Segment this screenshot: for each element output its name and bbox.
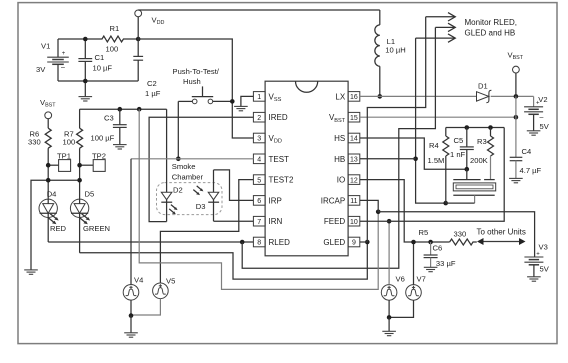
pin 8 RLED [253,237,290,247]
junction C5 top [465,125,470,130]
junction RLED branch [240,240,245,245]
svg-text:GLED and HB: GLED and HB [465,29,516,38]
wire divider top rail [446,127,504,129]
D3 incident light arrows [193,186,203,195]
junction GLED riser on pin 9 wire [365,240,370,245]
pin 9 GLED [323,237,359,247]
wire pushbutton left to TEST net [177,101,179,158]
svg-text:1.5M: 1.5M [428,156,445,165]
monitor arrow HB [416,34,456,42]
ground V4/V5 [124,333,138,337]
wire V1 negative lead [57,64,59,81]
wire GLED net D5 to riser [80,242,368,279]
junction L1 on LX wire [378,94,383,99]
capacitor C3 100uF [113,109,127,144]
junction resonator bottom node [443,201,448,206]
svg-text:33 µF: 33 µF [436,259,456,268]
svg-text:D3: D3 [196,202,206,211]
wire R6 bottom to D4 [47,148,49,199]
svg-text:12: 12 [350,177,358,184]
pin 6 IRP [253,196,281,206]
svg-text:LX: LX [335,92,345,101]
svg-text:V6: V6 [396,275,405,284]
junction gray riser top [137,107,142,112]
monitor arrow GLED [426,13,456,21]
pin 3 VDD [253,133,282,144]
capacitor C4 4.7uF [510,96,523,178]
svg-text:Push-To-Test/: Push-To-Test/ [173,67,220,76]
resistor R4 1.5M [443,128,449,204]
IC U1 body with notch [265,81,348,256]
wire D1 cathode to VBST node [491,95,534,97]
pin 11 IRCAP [321,196,360,206]
resistor R1 100 [85,36,138,42]
svg-text:V4: V4 [134,276,143,285]
svg-text:C6: C6 [433,244,443,253]
junction C6 on IO net [428,240,433,245]
svg-text:–: – [61,64,65,71]
LED D5 GREEN [70,199,90,224]
svg-text:V2: V2 [538,95,547,104]
svg-text:10 µF: 10 µF [93,64,113,73]
terminal VBST left [45,112,52,119]
wire IRED pin 2 to D2 cathode [149,117,253,221]
svg-text:3: 3 [257,136,261,143]
wire VDD top rail to L1 [138,9,380,11]
junction C3 top [118,107,123,112]
ground below C3 [113,145,127,149]
svg-text:D5: D5 [85,190,95,199]
svg-text:5V: 5V [540,122,550,131]
ground below C6 [424,267,438,271]
svg-text:3V: 3V [36,65,46,74]
svg-text:D2: D2 [173,186,183,195]
junction TP2 on R7 column [77,163,82,168]
diode D1 schottky [477,90,492,102]
wire V1 positive lead [57,39,59,57]
svg-text:11: 11 [350,198,357,205]
wire IRP pin 6 to D3 anode [214,170,254,201]
wire V6 to ground node [388,300,390,317]
LED D4 RED [39,199,59,224]
junction IRCAP branch [376,210,381,215]
wire HB column to monitor arrow [416,38,446,203]
pin 15 VBST [329,112,360,123]
IR LED D2 [161,192,172,221]
junction V6/V7 ground node [387,315,392,320]
svg-text:4: 4 [257,157,261,164]
wire VBST pin15 row [360,116,516,118]
capacitor C1 10uF [78,39,92,81]
battery V3 5V [524,251,543,276]
ceramic resonator Y1 [446,169,496,203]
svg-text:V5: V5 [166,277,175,286]
svg-text:330: 330 [28,138,41,147]
wire TEST pin 4 row [131,158,253,160]
svg-text:330: 330 [454,230,467,239]
svg-text:C3: C3 [104,113,114,122]
wire RLED branch to monitor arrow [242,27,435,268]
wire pin 9 stub [360,241,368,243]
svg-text:V7: V7 [417,275,426,284]
wire V5 to ground node [131,299,160,315]
junction V7 on IO net [411,240,416,245]
svg-text:5: 5 [257,177,261,184]
ground below C1 [79,81,93,101]
capacitor C6 33uF [424,242,438,267]
svg-text:200K: 200K [470,156,488,165]
svg-text:FEED: FEED [324,217,346,226]
svg-text:VBST: VBST [508,51,524,62]
svg-text:V1: V1 [41,41,50,50]
svg-text:1 nF: 1 nF [450,150,466,159]
svg-text:D4: D4 [47,190,57,199]
svg-text:C1: C1 [95,53,105,62]
svg-text:100: 100 [106,45,119,54]
svg-text:C5: C5 [454,136,464,145]
smoke chamber enclosure [157,183,223,215]
junction pushbutton on TEST wire [176,157,181,162]
ground at VSS [234,106,248,110]
svg-text:2: 2 [257,115,261,122]
svg-text:10: 10 [350,219,358,226]
pin 5 TEST2 [253,175,294,185]
wire IRCAP pin 11 [360,200,378,211]
svg-text:IRN: IRN [269,217,283,226]
svg-text:VDD: VDD [269,134,282,145]
junction pushbutton right on VDD drop [230,99,235,104]
svg-text:Chamber: Chamber [172,173,204,182]
wire bottom rail V1/C1/C2 [58,80,138,82]
resistor R5 330 [450,239,477,245]
monitor arrow RLED [435,23,455,31]
wire VSS pin 1 to ground [241,96,254,106]
capacitor C5 1nF [460,128,474,170]
svg-text:R4: R4 [429,141,439,150]
resistor R7 100 [77,128,83,148]
D2 emission arrows [169,205,177,215]
svg-text:RLED: RLED [269,238,291,247]
resistor R6 330 [45,128,51,148]
wire to V4/V5 ground [130,316,132,333]
pin 4 TEST [253,154,289,164]
junction HB pin 13 [413,157,418,162]
svg-text:VDD: VDD [152,16,165,27]
svg-text:1 µF: 1 µF [145,89,161,98]
svg-text:C2: C2 [147,79,157,88]
ground below V3 [527,277,541,281]
pin 7 IRN [253,216,282,226]
svg-text:13: 13 [350,157,358,164]
ground bottom-left [24,270,38,274]
wire V6 to FEED [388,221,390,284]
photodiode D3 [208,170,219,221]
wire VDD node to pin 3 [138,39,253,138]
svg-text:15: 15 [350,115,358,122]
test point TP1 [48,160,70,172]
svg-text:Monitor RLED,: Monitor RLED, [465,18,517,27]
svg-text:D1: D1 [478,82,488,91]
svg-text:4.7 µF: 4.7 µF [520,166,542,175]
svg-text:IRCAP: IRCAP [321,196,345,205]
svg-text:–: – [540,115,544,122]
junction V4/V5 ground node [129,313,134,318]
wire VBST terminal stub [515,73,517,96]
junction TP1 on R6 column [46,163,51,168]
junction R7 column on ground rail [77,178,82,183]
svg-text:9: 9 [352,240,356,247]
svg-text:5V: 5V [540,265,550,274]
svg-text:IRED: IRED [269,113,288,122]
wire net R7top/C3/D2 row [80,108,167,110]
junction node VBST [514,94,519,99]
svg-text:TP2: TP2 [92,151,106,160]
junction C5 bottom / HS [465,167,470,172]
junction R3 top [488,125,493,130]
svg-text:10 µH: 10 µH [385,45,405,54]
pulse source V5 [153,283,169,299]
svg-text:TEST2: TEST2 [269,176,294,185]
wire LX pin16 row [360,95,477,97]
double arrow to other units [477,238,526,245]
svg-text:TP1: TP1 [57,151,71,160]
pin 12 IO [337,175,360,185]
wire RLED row D4 to pin 8 [48,241,253,243]
terminal VBST right [513,66,520,73]
wire IO pin 12 to R5 [360,180,450,242]
ground below C4 [509,178,523,182]
wire to V6/V7 ground [388,317,390,331]
wire D5 cathode drop [79,218,81,253]
wire V4 to ground node [130,300,132,316]
wire V7 to IO net [413,242,415,285]
wire ground rail under R6/R7 [31,180,80,270]
junction pin15 wire to C4 column [514,115,519,120]
svg-text:TEST: TEST [269,155,290,164]
svg-text:IRP: IRP [269,196,282,205]
terminal VDD [135,10,142,17]
pushbutton S1 Push-To-Test/Hush [178,86,232,103]
wire TEST2 pin 5 to V5 [160,180,253,283]
svg-text:Hush: Hush [183,77,201,86]
label Smoke Chamber [172,162,204,182]
junction V6 on FEED wire [387,219,392,224]
junction node VDD [136,37,141,42]
resistor R3 200K [488,128,494,180]
svg-text:100: 100 [63,138,76,147]
battery V1 3V [47,51,69,71]
svg-text:+: + [62,51,66,57]
battery V2 5V [524,96,543,130]
wire HS pin 14 to C5 bottom [360,138,467,169]
wire VDD terminal to node [137,17,139,39]
svg-text:100 µF: 100 µF [91,133,115,142]
wire R7 bottom to D5 [79,148,81,199]
wire IRN pin 7 to D3 cathode [214,220,254,222]
svg-text:6: 6 [257,198,261,205]
svg-text:R5: R5 [419,228,429,237]
svg-text:Smoke: Smoke [172,162,196,171]
pin 10 FEED [324,216,360,226]
svg-text:To other Units: To other Units [477,228,526,237]
wire VBST to R6 [47,119,49,129]
svg-text:IO: IO [337,176,345,185]
svg-text:GREEN: GREEN [83,224,110,233]
pulse source V6 [381,285,397,301]
pin 14 HS [334,133,360,143]
svg-text:R1: R1 [110,24,120,33]
svg-text:V3: V3 [539,243,548,252]
wire GLED riser to monitor arrow [367,17,425,242]
ground V6/V7 [382,331,396,335]
svg-text:8: 8 [257,240,261,247]
svg-text:16: 16 [350,94,358,101]
pin 16 LX [335,92,359,102]
junction R6 column on ground rail [46,178,51,183]
junction node A (C1 top) [83,37,88,42]
test point TP2 [80,160,106,172]
svg-text:7: 7 [257,219,261,226]
svg-text:RED: RED [50,224,67,233]
svg-text:VBST: VBST [329,113,346,124]
wire pin 13 HB [360,158,416,160]
wire V7 to ground node [389,300,413,317]
svg-text:1: 1 [257,94,261,101]
label Push-To-Test/Hush [173,67,220,86]
wire R7 top lead [79,109,81,128]
wire FEED pin 10 to divider top [360,128,504,222]
pin 1 VSS (box, number, name) [253,92,281,103]
wire gray net C3 node to IRCAP column [139,109,378,289]
pin 13 HB [334,154,360,164]
capacitor C2 1uF [133,39,143,81]
wire D4 cathode to RLED row [47,218,49,243]
wire D2 anode column [166,109,168,192]
ground below V2 [527,131,541,135]
svg-text:+: + [536,251,540,257]
pin 2 IRED [253,112,287,122]
inductor L1 10uH [375,10,380,96]
svg-text:R3: R3 [477,137,487,146]
svg-text:GLED: GLED [323,238,345,247]
svg-text:VBST: VBST [40,98,56,109]
junction node C1 bottom [83,79,88,84]
svg-text:HB: HB [334,155,345,164]
svg-text:14: 14 [350,136,358,143]
wire IRCAP to V3 [378,212,534,257]
svg-text:HS: HS [334,134,345,143]
label Monitor RLED, GLED and HB [465,18,517,38]
wire V4 column to TEST [130,159,132,285]
svg-text:VSS: VSS [269,92,282,103]
pulse source V4 [123,285,139,301]
wire V1 top to node A [58,38,85,40]
pulse source V7 [406,285,422,301]
svg-text:C4: C4 [522,147,532,156]
